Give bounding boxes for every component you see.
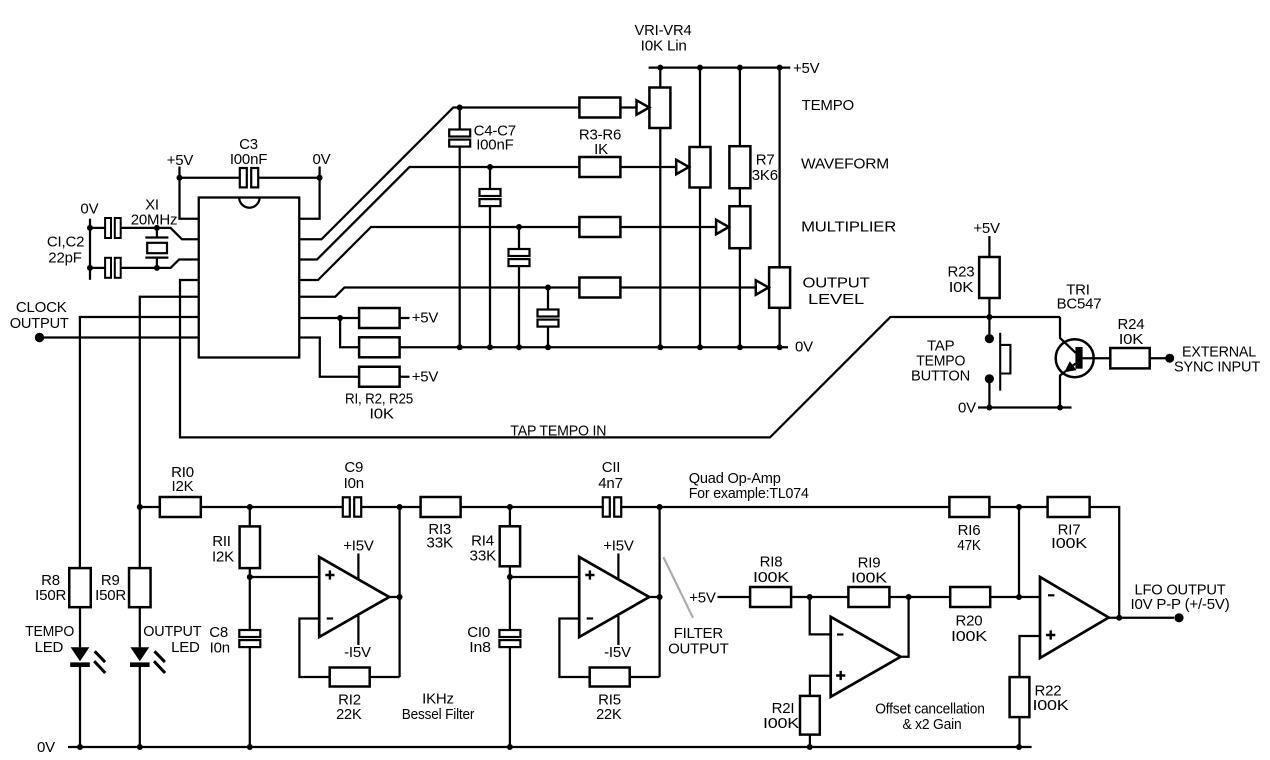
capacitor C7 100nF xyxy=(545,285,551,291)
IC U1 pin-1 notch xyxy=(239,198,259,208)
wire 0V crystal rail xyxy=(89,219,91,280)
svg-text:Offset cancellation: Offset cancellation xyxy=(875,700,985,717)
resistor R21 100K xyxy=(800,696,820,735)
wire to op2 + input xyxy=(510,576,579,578)
op2 feedback / R15 22K xyxy=(559,619,589,678)
capacitor C2 22pF xyxy=(90,267,105,269)
svg-text:+I5V: +I5V xyxy=(603,537,634,554)
svg-text:0V: 0V xyxy=(37,739,55,756)
op4 + input wire xyxy=(1020,636,1041,677)
resistor R20 100K xyxy=(950,587,990,607)
wire clock output xyxy=(40,336,199,338)
svg-text:C9: C9 xyxy=(344,459,363,476)
resistor R8 150R xyxy=(69,568,91,607)
CLOCK OUTPUT terminal xyxy=(35,333,44,342)
wire TAP TEMPO IN line xyxy=(180,280,1060,437)
capacitor C9 10n xyxy=(343,497,350,516)
svg-text:IK: IK xyxy=(594,141,608,158)
svg-text:I0V P-P (+/-5V): I0V P-P (+/-5V) xyxy=(1131,596,1230,613)
svg-text:I00K: I00K xyxy=(951,628,987,645)
capacitor C5 100nF xyxy=(487,164,493,170)
capacitor C6 100nF xyxy=(516,224,522,230)
TEMPO LED xyxy=(79,607,81,647)
svg-text:SYNC INPUT: SYNC INPUT xyxy=(1174,358,1260,375)
wire IC to R4 row xyxy=(299,167,579,260)
resistor R5 xyxy=(579,217,620,237)
IC U1 microcontroller body xyxy=(199,198,300,358)
svg-text:FILTER: FILTER xyxy=(674,625,724,642)
svg-text:I00K: I00K xyxy=(753,569,789,586)
svg-text:LED: LED xyxy=(171,639,200,656)
capacitor C10 1n8 xyxy=(509,577,511,630)
svg-text:R23: R23 xyxy=(948,263,975,280)
svg-text:WAVEFORM: WAVEFORM xyxy=(801,156,889,173)
svg-text:I0n: I0n xyxy=(210,639,230,656)
potentiometer VR1 TEMPO xyxy=(649,88,670,129)
svg-text:CI,C2: CI,C2 xyxy=(47,233,84,250)
resistor R4 xyxy=(579,157,620,177)
resistor R25 10K xyxy=(299,338,359,377)
capacitor C11 4n7 xyxy=(603,497,610,516)
svg-text:33K: 33K xyxy=(426,534,453,551)
svg-text:+5V: +5V xyxy=(412,310,439,327)
svg-text:LEVEL: LEVEL xyxy=(808,291,864,308)
svg-text:MULTIPLIER: MULTIPLIER xyxy=(801,218,896,235)
svg-text:CLOCK: CLOCK xyxy=(16,299,67,316)
svg-text:I0K: I0K xyxy=(1119,331,1144,348)
wire IC pin to R8/TEMPO LED xyxy=(80,317,199,568)
node R19/R20/op3 out xyxy=(889,596,950,598)
svg-text:R20: R20 xyxy=(956,612,983,629)
svg-text:I0n: I0n xyxy=(344,475,364,492)
svg-text:I0K Lin: I0K Lin xyxy=(641,37,687,54)
wiper arrow VR1 xyxy=(620,106,636,108)
svg-text:I00K: I00K xyxy=(1051,535,1087,552)
resistor R24 10K xyxy=(1110,348,1149,368)
svg-text:0V: 0V xyxy=(313,151,331,168)
svg-text:I00nF: I00nF xyxy=(230,151,267,168)
resistor R11 12K xyxy=(249,507,251,526)
svg-text:OUTPUT: OUTPUT xyxy=(803,274,870,291)
0V mid rail xyxy=(400,346,788,348)
resistor R13 33K xyxy=(421,497,461,517)
resistor R6 xyxy=(579,278,620,298)
svg-text:0V: 0V xyxy=(80,201,98,218)
svg-text:3K6: 3K6 xyxy=(752,167,778,184)
EXTERNAL SYNC INPUT terminal xyxy=(1165,354,1174,363)
svg-text:I00K: I00K xyxy=(851,569,887,586)
op-amp U2b (filter stage 2) xyxy=(579,557,649,637)
potentiometer VR3 MULTIPLIER xyxy=(729,206,750,248)
svg-text:I2K: I2K xyxy=(212,548,234,565)
potentiometer VR4 OUTPUT LEVEL xyxy=(769,267,790,308)
capacitor C4 100nF xyxy=(457,105,463,111)
svg-text:TEMPO: TEMPO xyxy=(25,623,74,640)
wire crystal to IC OSC2 xyxy=(157,260,199,268)
resistor R2 10K xyxy=(359,337,400,357)
svg-text:IKHz: IKHz xyxy=(422,690,454,707)
FILTER OUTPUT pointer xyxy=(663,557,693,618)
resistor R10 12K xyxy=(137,504,143,510)
svg-text:I2K: I2K xyxy=(172,478,194,495)
resistor R3 xyxy=(579,98,620,118)
op-amp U2c (offset cancel) xyxy=(831,617,901,697)
TR1 emitter wire xyxy=(1060,364,1076,408)
svg-text:I0K: I0K xyxy=(949,279,974,296)
svg-text:+5V: +5V xyxy=(412,369,439,386)
node op1 output / C9 / R13 xyxy=(397,504,403,510)
svg-text:+5V: +5V xyxy=(793,60,820,77)
svg-text:I00nF: I00nF xyxy=(476,137,513,154)
svg-text:-I5V: -I5V xyxy=(344,644,371,661)
node R16/R17 xyxy=(989,506,1047,508)
wiper arrow VR3 xyxy=(620,226,715,228)
wire IC to R5 row xyxy=(299,227,579,280)
OUTPUT LED xyxy=(139,607,141,647)
resistor R1 10K xyxy=(299,317,359,319)
op1 output wire xyxy=(389,507,399,677)
svg-text:LED: LED xyxy=(35,639,64,656)
svg-text:I00K: I00K xyxy=(1033,697,1069,714)
resistor R17 100K xyxy=(1048,497,1090,517)
svg-text:22pF: 22pF xyxy=(48,250,81,267)
svg-text:I50R: I50R xyxy=(35,587,66,604)
svg-text:BC547: BC547 xyxy=(1057,295,1102,312)
transistor TR1 BC547 xyxy=(1056,339,1094,377)
resistor R14 33K xyxy=(507,504,513,510)
svg-text:For example:TL074: For example:TL074 xyxy=(689,485,809,502)
node R10/R11/C9 xyxy=(247,504,253,510)
capacitor C8 10n xyxy=(249,577,251,630)
svg-text:+5V: +5V xyxy=(167,152,194,169)
svg-text:Bessel Filter: Bessel Filter xyxy=(402,706,475,723)
svg-text:CII: CII xyxy=(602,459,621,476)
svg-text:TAP TEMPO IN: TAP TEMPO IN xyxy=(510,422,606,439)
svg-text:47K: 47K xyxy=(957,537,981,554)
wiper arrow VR2 xyxy=(620,166,675,168)
svg-text:0V: 0V xyxy=(958,400,976,417)
node tap line / R23 xyxy=(986,314,992,320)
svg-text:4n7: 4n7 xyxy=(598,475,622,492)
potentiometer VR2 WAVEFORM xyxy=(690,147,711,188)
op-amp U2a (filter stage 1) xyxy=(319,557,389,637)
wire crystal to IC OSC1 xyxy=(157,228,199,239)
resistor R23 10K xyxy=(979,257,1000,298)
svg-text:20MHz: 20MHz xyxy=(131,211,178,228)
svg-text:-I5V: -I5V xyxy=(604,644,631,661)
svg-text:I0K: I0K xyxy=(369,406,394,423)
svg-text:In8: In8 xyxy=(469,639,491,656)
TR1 collector wire xyxy=(1060,317,1076,353)
svg-text:22K: 22K xyxy=(336,706,362,723)
LFO OUTPUT terminal xyxy=(1174,613,1183,622)
op3 output wire xyxy=(902,597,909,657)
svg-text:OUTPUT: OUTPUT xyxy=(10,315,69,332)
op2 output wire xyxy=(649,507,659,677)
svg-text:I50R: I50R xyxy=(95,587,126,604)
wire IC to R6 row xyxy=(299,288,579,297)
svg-text:C8: C8 xyxy=(209,624,228,641)
svg-text:I00K: I00K xyxy=(763,715,799,732)
resistor R19 100K xyxy=(848,587,889,607)
wire 0V to IC xyxy=(299,167,319,219)
wire to op1 + input xyxy=(250,576,319,578)
op3 - input wire xyxy=(810,597,831,634)
wiper arrow VR4 xyxy=(620,286,755,288)
svg-text:BUTTON: BUTTON xyxy=(911,368,970,385)
node R18/R19/op3- xyxy=(791,596,848,598)
svg-text:TEMPO: TEMPO xyxy=(802,97,854,114)
svg-text:33K: 33K xyxy=(470,547,497,564)
svg-text:+I5V: +I5V xyxy=(343,537,374,554)
resistor R7 3K6 xyxy=(729,146,750,188)
node crystal-cap top xyxy=(87,225,93,231)
wire IC to R3 row xyxy=(299,108,579,240)
capacitor C1 22pF xyxy=(90,227,105,229)
svg-text:OUTPUT: OUTPUT xyxy=(668,641,729,658)
svg-text:& x2 Gain: & x2 Gain xyxy=(903,716,962,733)
svg-text:0V: 0V xyxy=(795,339,813,356)
wire +5V to IC xyxy=(180,167,199,219)
capacitor C3 100nF xyxy=(180,177,240,179)
node crystal-cap bottom xyxy=(87,265,93,271)
resistor R9 150R xyxy=(129,568,151,607)
op1 feedback / R12 22K xyxy=(299,619,329,678)
resistor R22 100K xyxy=(1010,677,1030,717)
svg-text:22K: 22K xyxy=(596,706,622,723)
svg-text:+5V: +5V xyxy=(689,590,716,607)
crystal X1 20MHz xyxy=(154,225,160,231)
tap tempo button switch xyxy=(988,317,990,334)
op4 output wire xyxy=(1109,617,1174,619)
+5V top rail xyxy=(649,66,791,68)
svg-text:OUTPUT: OUTPUT xyxy=(143,623,201,640)
op3 + input wire xyxy=(810,676,831,696)
op-amp U2d (output) xyxy=(1040,577,1109,658)
resistor R16 47K xyxy=(949,497,989,517)
R17 feedback wire xyxy=(1090,507,1120,618)
TR1 base wire xyxy=(1083,357,1111,359)
wire IC pin to R9/R10 xyxy=(140,297,199,568)
resistor R18 100K xyxy=(750,587,791,607)
svg-text:+5V: +5V xyxy=(973,220,1000,237)
